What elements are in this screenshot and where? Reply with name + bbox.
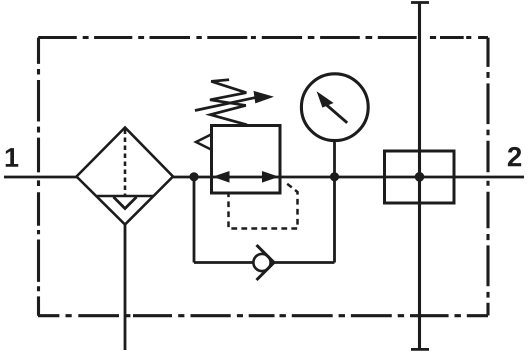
- enclosure dash-dot boundary: right edge: [486, 38, 489, 316]
- mounting rail vertical line: [418, 3, 421, 350]
- node: junction dot before regulator: [189, 172, 198, 181]
- pressure gauge G1: stem: [333, 142, 336, 177]
- pressure gauge G1: dial circle: [301, 74, 368, 141]
- filter element dashed centre line: [124, 130, 127, 197]
- wire: flow line through outlet module: [385, 176, 525, 179]
- wire: regulator to outlet junction: [280, 176, 335, 179]
- regulator adjustment arrow shaft: [195, 97, 258, 111]
- filter with water separator: diamond body: [77, 128, 174, 225]
- mounting rail bottom tick: [411, 348, 429, 351]
- gauge needle arrowhead: [317, 91, 334, 107]
- regulator adjustment arrowhead: [254, 91, 275, 104]
- wire: bypass right riser: [333, 177, 336, 263]
- check valve: ball circle: [253, 254, 270, 271]
- check valve: seat chevron: [257, 245, 275, 280]
- regulator flow arrowhead pointing right: [262, 171, 279, 183]
- wire: condensate drain: [124, 225, 127, 351]
- enclosure dash-dot boundary: bottom edge: [38, 314, 488, 317]
- wire: bypass bottom run right of check valve: [274, 261, 335, 264]
- pilot line (dashed) from outlet under regulator: [229, 184, 298, 229]
- port label 1: [6, 148, 19, 167]
- regulator relief vent triangle: [196, 134, 212, 149]
- wire: flow line through regulator: [211, 176, 281, 179]
- node: junction dot at gauge/outlet: [330, 172, 339, 181]
- wire: bypass left drop: [193, 177, 196, 263]
- wire: junction to outlet module: [335, 176, 385, 179]
- enclosure dash-dot boundary: top edge: [38, 36, 488, 39]
- port label 2: [508, 147, 521, 166]
- mounting rail top tick: [411, 1, 429, 4]
- wire: inlet from port 1 to filter: [4, 176, 78, 179]
- node: junction dot in outlet module: [415, 172, 425, 182]
- gauge needle shaft: [326, 105, 347, 123]
- wire: filter to regulator: [173, 176, 211, 179]
- outlet module: body square: [385, 151, 455, 203]
- regulator adjustment spring: [210, 80, 247, 125]
- enclosure dash-dot boundary: left edge: [37, 38, 40, 316]
- regulator flow arrowhead pointing left: [213, 171, 230, 183]
- separator chord: [97, 195, 153, 198]
- wire: bypass bottom run left of check valve: [194, 261, 254, 264]
- regulator R1: body box: [212, 126, 281, 194]
- separator inner V: [114, 197, 137, 209]
